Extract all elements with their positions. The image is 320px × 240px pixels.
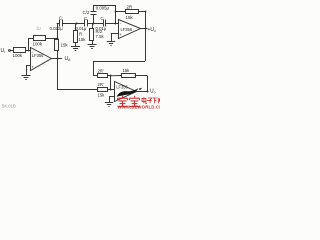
red text dianzi xiazai (drawn) [142, 97, 160, 103]
red char 1 (drawn) [118, 96, 128, 107]
svg-text:C/2: C/2 [83, 10, 90, 15]
capacitor C1 [57, 23, 60, 25]
wire top feedback [94, 5, 116, 7]
resistor 2R' lower [98, 88, 108, 92]
char zai [158, 98, 160, 103]
ground [88, 45, 97, 49]
svg-text:7.5k: 7.5k [96, 34, 105, 39]
svg-text:0.022μ: 0.022μ [50, 26, 64, 31]
svg-text:2R′: 2R′ [98, 82, 104, 87]
wire [26, 65, 30, 67]
svg-text:1μ: 1μ [36, 26, 41, 31]
svg-text:15k: 15k [126, 15, 134, 20]
resistor 2R' upper [98, 74, 108, 78]
node [145, 11, 147, 13]
node T1 [75, 22, 77, 24]
capacitor C/2 [93, 14, 95, 23]
node feedback junction [57, 38, 59, 40]
node input junction [28, 50, 30, 52]
svg-text:UA: UA [65, 56, 72, 62]
node summing bottom [110, 89, 112, 91]
svg-text:15k: 15k [123, 68, 131, 73]
wire output [140, 28, 148, 30]
wire [26, 66, 28, 76]
node 2R tap [115, 11, 117, 13]
svg-text:+Uo: +Uo [148, 27, 157, 33]
svg-text:+: + [31, 65, 34, 70]
wire [145, 12, 147, 62]
ground [107, 42, 115, 46]
svg-text:2R: 2R [127, 4, 133, 9]
node output U2 [144, 27, 146, 29]
svg-text:LF356: LF356 [32, 53, 44, 58]
wire [135, 75, 148, 77]
svg-text:15k: 15k [79, 37, 87, 42]
op-amp U1 LF356 [31, 48, 52, 71]
resistor 15k vertical [57, 23, 59, 40]
wire [28, 38, 30, 50]
swoosh logo [117, 88, 139, 97]
wire [115, 11, 125, 13]
wire [106, 23, 118, 25]
svg-text:15k: 15k [98, 93, 106, 98]
ground [71, 47, 80, 51]
svg-text:2R′: 2R′ [98, 69, 104, 74]
wire [87, 23, 103, 25]
capacitor C2 [84, 20, 86, 27]
wire [108, 89, 115, 91]
resistor R/2 [92, 23, 94, 29]
swoosh tip dot [139, 88, 142, 91]
svg-text:R: R [79, 32, 82, 37]
resistor Rin 100k [14, 48, 26, 53]
wire [108, 75, 111, 77]
node T2 [92, 22, 94, 24]
svg-text:5K.01B: 5K.01B [2, 104, 16, 109]
svg-text:WWW.DZWORLD.CN: WWW.DZWORLD.CN [118, 105, 161, 110]
wire [110, 76, 112, 90]
svg-text:C: C [59, 16, 62, 21]
wire [62, 23, 85, 25]
svg-text:Uo: Uo [150, 89, 156, 95]
svg-text:+: + [119, 32, 122, 37]
svg-text:C: C [84, 16, 87, 21]
op-amp U2 LF356 [119, 20, 141, 39]
input terminal U_i [9, 50, 11, 52]
char zi [147, 98, 152, 103]
watermark [117, 88, 163, 110]
wire [25, 50, 30, 52]
wire [57, 59, 59, 90]
capacitor C3 [103, 20, 105, 27]
svg-text:0.01μ: 0.01μ [76, 26, 87, 31]
op-amp U3 LF356 [115, 82, 137, 102]
wire [138, 11, 145, 13]
svg-text:C: C [101, 16, 104, 21]
svg-text:100k: 100k [13, 53, 23, 58]
resistor Rf 100k [34, 36, 46, 41]
resistor 2R [126, 10, 139, 14]
text labels [1, 4, 157, 108]
char xia [153, 98, 158, 103]
node main line [115, 23, 117, 25]
wire to R' [111, 75, 122, 77]
ground [22, 76, 31, 80]
svg-text:15k: 15k [61, 43, 69, 48]
resistor R shunt left [75, 23, 77, 30]
svg-text:LF356: LF356 [116, 85, 128, 90]
svg-text:100k: 100k [33, 42, 43, 47]
svg-text:LF356: LF356 [121, 27, 133, 32]
wire [10, 50, 13, 52]
wire [51, 58, 62, 60]
wire plus input [111, 33, 118, 35]
wire return [93, 61, 145, 63]
node output U3 [146, 90, 148, 92]
wire [28, 38, 33, 40]
node summing top [110, 75, 112, 77]
red char 2 (drawn) [130, 96, 140, 107]
char dian [142, 97, 147, 103]
resistor R' [122, 74, 136, 78]
node A [56, 57, 58, 59]
wire [45, 38, 57, 40]
svg-text:Ui: Ui [1, 48, 6, 54]
wire output [136, 91, 149, 93]
wire [57, 89, 97, 91]
ground [105, 103, 113, 107]
wire plus input [109, 96, 114, 98]
svg-text:0.005μ: 0.005μ [96, 6, 110, 11]
